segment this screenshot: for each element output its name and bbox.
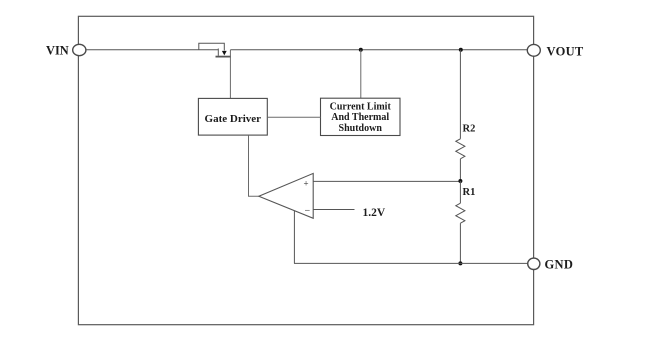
node junction R1 GND [458,261,462,265]
svg-text:R1: R1 [463,187,476,198]
wire Gate Driver bottom to op-amp output [249,135,259,196]
IC boundary box [78,16,533,324]
node junction rail to R2 [459,48,463,52]
wire feedback node to R1 [459,181,461,203]
wire rail down to R2 [459,50,461,139]
svg-text:Shutdown: Shutdown [339,123,383,134]
wire rail transistor to VOUT [230,49,527,51]
wire rail to Current Limit box [360,50,362,98]
wire op-amp plus input to feedback node [313,180,460,182]
svg-text:And Thermal: And Thermal [331,112,389,123]
wire Gate Driver to Current Limit [267,116,320,118]
svg-text:+: + [304,179,309,189]
resistor R1 [456,187,476,223]
svg-text:GND: GND [545,258,574,272]
node feedback junction FB [458,179,462,183]
block Current Limit And Thermal Shutdown [321,98,401,135]
wire transistor drain/gate vertical to Gate Driver [229,50,231,99]
wire VIN rail to transistor source [85,49,218,51]
svg-text:R2: R2 [463,123,476,134]
block Gate Driver [198,98,267,135]
svg-text:1.2V: 1.2V [363,207,386,219]
svg-text:VIN: VIN [46,43,69,57]
svg-text:−: − [305,206,311,217]
wire op-amp minus input to 1.2V reference [313,209,354,211]
wire R2 to feedback node [459,159,461,181]
op-amp U1 error amplifier [259,173,313,218]
svg-text:Gate Driver: Gate Driver [205,113,262,125]
wire op-amp ground stub to GND rail [293,211,295,264]
node junction rail to current-limit [359,48,363,52]
svg-text:VOUT: VOUT [547,45,584,59]
terminal VIN pin circle [73,44,86,55]
wire R1 to GND rail [459,223,461,263]
wire GND rail [294,262,528,264]
terminal VOUT pin circle [527,44,540,56]
svg-text:Current Limit: Current Limit [330,102,392,113]
transistor Q1 pass PMOS [199,43,231,56]
terminal GND pin circle [528,258,540,269]
resistor R2 [456,123,476,159]
